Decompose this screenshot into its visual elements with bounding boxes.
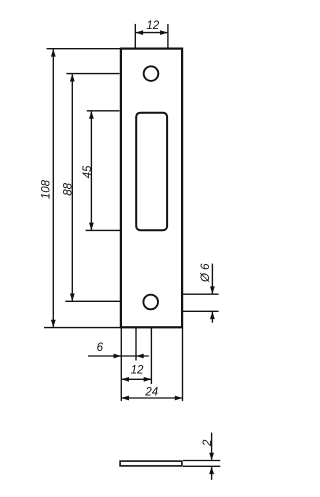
dimension line 45 — [90, 111, 92, 230]
plate side view (thickness) — [120, 461, 182, 466]
dimension line 12 top — [136, 32, 168, 34]
dimension line 88 — [71, 74, 73, 301]
extension line plate-right projected down (for 24) — [182, 328, 184, 401]
svg-text:Ø 6: Ø 6 — [200, 263, 212, 283]
svg-text:45: 45 — [82, 165, 94, 178]
leader arrow up (Ø6) — [211, 312, 213, 323]
dimension line 6 (outside arrows) — [88, 355, 149, 357]
extension line top edge (for 108) — [47, 48, 120, 50]
extension line hole bottom edge right (for Ø6) — [183, 310, 219, 312]
svg-text:12: 12 — [146, 20, 159, 32]
extension line slot bottom (for 45) — [86, 229, 122, 231]
hole top — [144, 66, 159, 81]
svg-text:6: 6 — [97, 342, 104, 354]
extension line bottom edge (for 108) — [44, 327, 122, 329]
svg-text:24: 24 — [144, 387, 158, 399]
extension line plate-left projected down (for 6/12/24) — [120, 328, 122, 401]
extension line top hole center (for 88) — [66, 73, 119, 75]
dimension line 108 — [52, 50, 54, 327]
dimension line 24 — [122, 397, 182, 399]
extension line side-view bottom (for 2) — [183, 465, 220, 467]
svg-text:2: 2 — [202, 439, 214, 447]
extension line slot-left projected down (for 6) — [135, 328, 137, 361]
svg-text:108: 108 — [41, 179, 53, 199]
svg-text:88: 88 — [63, 182, 75, 195]
plate outline (front view) — [121, 49, 182, 328]
leader arrow down (2) — [211, 433, 213, 460]
extension line bottom hole center (for 88) — [65, 300, 122, 302]
extension line side-view top (for 2) — [183, 460, 220, 462]
extension line slot-left projected up (for 12 top) — [134, 24, 136, 48]
leader arrow up (2) — [211, 467, 213, 480]
extension line hole-center projected down (for 12) — [150, 328, 152, 384]
extension line slot top (for 45) — [87, 110, 120, 112]
svg-text:12: 12 — [131, 364, 144, 376]
extension line slot-right projected up (for 12 top) — [167, 24, 169, 48]
leader arrow down (Ø6) — [211, 264, 213, 294]
extension line hole top edge right (for Ø6) — [183, 293, 219, 295]
dimension line 12 bottom — [122, 378, 151, 380]
hole bottom — [143, 295, 158, 310]
slot (latch opening) — [136, 113, 167, 231]
